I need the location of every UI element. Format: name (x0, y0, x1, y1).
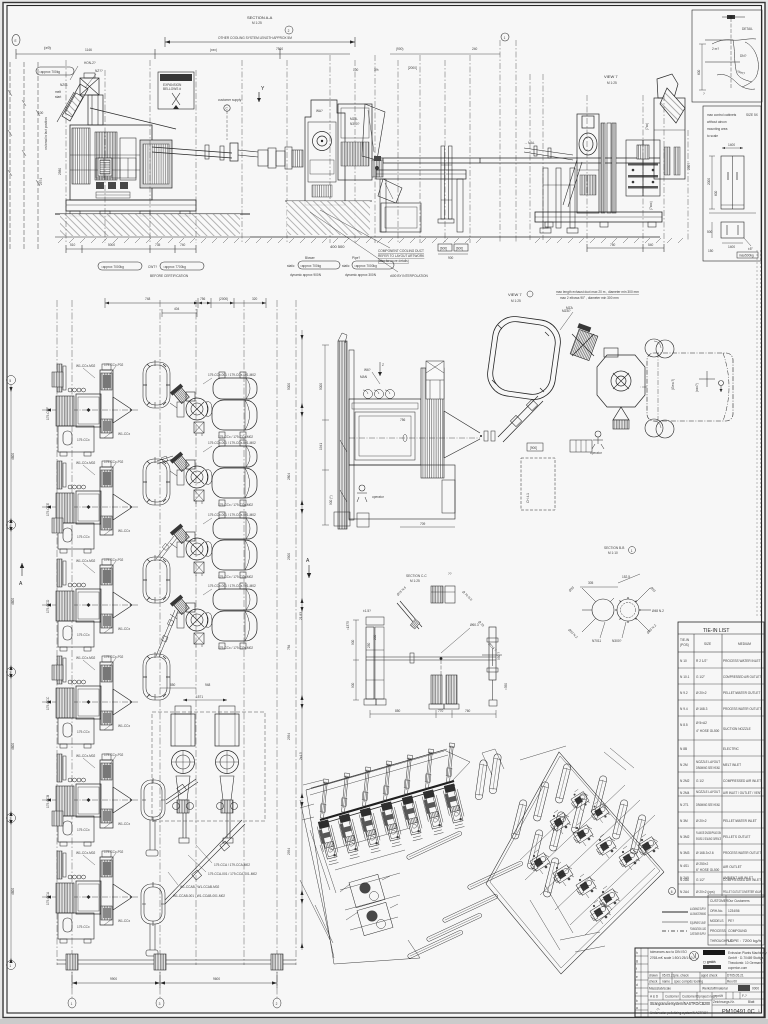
iso1 dryer blob 1 (340, 874, 390, 907)
big pipe loop center view (485, 314, 563, 403)
pelletizer assembly 1 (170, 372, 257, 439)
dryer area dashed enclosure (152, 712, 265, 821)
ground hatch ticks (58, 238, 683, 243)
iso2 cluster A1 (530, 850, 551, 874)
svg-text:1: 1 (504, 36, 506, 40)
svg-text:mounting area: mounting area (707, 127, 728, 131)
svg-text:2804: 2804 (287, 473, 291, 480)
svg-text:[2000]: [2000] (408, 66, 417, 70)
iso1 mast 3 (362, 767, 371, 806)
svg-text:756: 756 (400, 418, 406, 422)
svg-text:≈approx 700kg: ≈approx 700kg (39, 70, 60, 74)
svg-text:→ MAL: → MAL (524, 141, 535, 145)
exhaust duct note (556, 290, 639, 300)
svg-text:500: 500 (707, 230, 713, 234)
iso2 silo tube 5 (555, 763, 572, 804)
svg-text:N 8.5: N 8.5 (680, 723, 688, 727)
svg-text:SIZE 5X: SIZE 5X (746, 113, 759, 117)
svg-text:CH 4.1: CH 4.1 (526, 493, 530, 503)
C-C left frame (366, 617, 384, 699)
svg-text:179-CCA / 179-CCA-M02: 179-CCA / 179-CCA-M02 (214, 863, 250, 867)
diverter knot at duct start (372, 156, 383, 177)
diagonal pellet pipe row 5 (166, 779, 198, 804)
svg-text:Customer: Customer (665, 995, 680, 999)
diagonal pellet pipe row 6 (165, 820, 245, 904)
left wall columns (52, 372, 63, 826)
svg-text:770: 770 (438, 709, 444, 713)
right plan dim labels rotated (287, 383, 303, 855)
svg-text:DRAWING SEE HEAD: DRAWING SEE HEAD (696, 766, 721, 770)
svg-text:4" HOSE GL500: 4" HOSE GL500 (696, 729, 720, 733)
svg-text:CustomerID: CustomerID (682, 995, 700, 999)
iso2 bottom edge extras (530, 885, 605, 952)
svg-text:[600]: [600] (456, 247, 463, 251)
svg-text:N 3M3: N 3M3 (680, 851, 690, 855)
iso2 silo tube 8 (571, 793, 588, 834)
svg-text:G 1/2": G 1/2" (696, 675, 705, 679)
svg-text:179-CCA-001 / 179-CCA-001-M02: 179-CCA-001 / 179-CCA-001-M02 (208, 872, 257, 876)
svg-text:project no.: project no. (699, 995, 714, 999)
table outer frame (678, 622, 764, 897)
svg-text:N 2T1: N 2T1 (680, 803, 689, 807)
svg-text:SUCTION NOZZLE: SUCTION NOZZLE (723, 727, 751, 731)
svg-text:tolerances acc to DIN ISO: tolerances acc to DIN ISO (650, 950, 687, 954)
svg-text:Z: Z (382, 363, 384, 367)
bellows note box (158, 72, 194, 109)
svg-text:NZ??: NZ?? (95, 69, 103, 73)
svg-text:WA?: WA? (316, 109, 323, 113)
svg-text:740: 740 (180, 243, 186, 247)
svg-text:h: h (636, 951, 638, 955)
company bold rows (703, 950, 725, 969)
iso1 pellet tube 1 (406, 831, 462, 860)
svg-text:SECTION B-B: SECTION B-B (604, 546, 624, 550)
plan vertical grid lines (57, 300, 296, 1000)
svg-text:PELLET/WATER OUTLET: PELLET/WATER OUTLET (723, 691, 760, 695)
svg-text:EN1092-1 SEALING SURFACE: EN1092-1 SEALING SURFACE (696, 837, 721, 841)
svg-text:N 3M: N 3M (680, 819, 688, 823)
svg-text:to scale: to scale (707, 134, 718, 138)
feed column (88, 95, 103, 125)
tilted deflector plate (378, 179, 402, 203)
svg-text:(7xxx): (7xxx) (649, 201, 653, 210)
pelletizer assembly center (597, 348, 645, 429)
top dim labels center (353, 47, 500, 72)
iso1 machine 5 (400, 795, 424, 841)
operator figure center (590, 431, 604, 455)
svg-text:W1-CCAB-001 / W1-CCAB-001-M02: W1-CCAB-001 / W1-CCAB-001-M02 (173, 894, 225, 898)
svg-text:COMPRESSED AIR OUTLET: COMPRESSED AIR OUTLET (723, 675, 761, 679)
svg-text:5000: 5000 (287, 383, 291, 390)
svg-text:PROCESS WATER OUTLET: PROCESS WATER OUTLET (723, 707, 761, 711)
svg-text:HON-2?: HON-2? (84, 61, 96, 65)
Y datum arrow (257, 86, 265, 102)
svg-text:ELECTRIC: ELECTRIC (723, 747, 739, 751)
svg-text:▢ gmbh: ▢ gmbh (703, 960, 716, 964)
svg-text:N7011: N7011 (592, 639, 601, 643)
section A-A title (247, 15, 273, 25)
svg-text:pre. check: pre. check (674, 974, 689, 978)
svg-text:1400: 1400 (728, 143, 735, 147)
inlet pipe left (524, 141, 573, 160)
detail dims (699, 44, 706, 90)
iso2 aisle lines (520, 785, 658, 935)
svg-text:PROCESS: PROCESS (710, 929, 726, 933)
title block top row texts (650, 950, 693, 960)
svg-text:DETAIL: DETAIL (742, 27, 753, 31)
open frame box (381, 203, 421, 232)
svg-text:BEFORE CERTIFICATION: BEFORE CERTIFICATION (150, 274, 189, 278)
iso2 silo tube 7 (549, 811, 566, 852)
svg-text:404: 404 (174, 307, 180, 311)
date-name rows (648, 972, 764, 984)
svg-text:PELLET/WATER INLET: PELLET/WATER INLET (723, 819, 757, 823)
iso2 cluster B3 (596, 834, 617, 858)
section arrow A right (306, 558, 311, 578)
right tower with hopper (654, 74, 685, 179)
iso1 mast 1 (320, 779, 329, 818)
svg-text:PM10491.0C: PM10491.0C (722, 1009, 755, 1015)
svg-text:±5°: ±5° (748, 247, 754, 251)
svg-text:N 2A6: N 2A6 (680, 878, 689, 882)
iso2 cluster A3 (576, 874, 597, 898)
vertical grid dashed right view (530, 74, 688, 244)
table data rows (678, 668, 764, 884)
svg-text:??: ?? (448, 572, 452, 576)
svg-text:max 2 elbows 90° , diameter mi: max 2 elbows 90° , diameter min 300 mm (560, 296, 619, 300)
iso1 mast 2 (341, 773, 350, 812)
svg-text:6: 6 (671, 890, 673, 894)
svg-text:AIR OUTLET: AIR OUTLET (723, 865, 742, 869)
svg-text:f: f (636, 967, 637, 971)
iso2 cluster A2 (553, 862, 574, 886)
middle hatched columns (601, 123, 616, 213)
svg-text:3: 3 (159, 1002, 161, 1006)
feed hopper box (80, 73, 99, 95)
svg-text:GmbH · D-70469 Stuttgart: GmbH · D-70469 Stuttgart (728, 956, 765, 960)
svg-text:SECTION A-A: SECTION A-A (247, 15, 273, 20)
manifold piping detail (96, 158, 136, 198)
melt pipe to diverter (152, 143, 258, 161)
svg-text:0000: 0000 (752, 987, 759, 991)
pelletizer main block (305, 100, 372, 205)
iso2 cluster top (571, 789, 590, 811)
plan top dimension chain (105, 297, 266, 317)
blower weight pills (287, 256, 394, 277)
svg-text:ALLOWANCE SUPPLY: ALLOWANCE SUPPLY (690, 907, 706, 911)
svg-text:N 10: N 10 (680, 659, 687, 663)
svg-text:709: 709 (420, 522, 426, 526)
cabinet left extension (707, 156, 718, 209)
svg-text:900 (*): 900 (*) (329, 495, 333, 505)
drawing title text (650, 1001, 710, 1015)
twin cylinders center bottom (645, 419, 674, 438)
circled marker left of last row (669, 888, 676, 895)
svg-text:Ø60.3: Ø60.3 (470, 623, 479, 627)
extruder main body (70, 108, 176, 200)
leader MZA (560, 306, 574, 330)
svg-text:7560: 7560 (276, 47, 283, 51)
svg-text:2580: 2580 (58, 168, 62, 175)
dryer unit 2 (215, 706, 239, 843)
svg-text:200: 200 (373, 634, 377, 640)
center pelletizer assembly dark (626, 140, 660, 196)
svg-text:179-CCE: 179-CCE (46, 503, 50, 516)
loop-to-assembly connector row 2 (157, 456, 173, 464)
plan right dimension line (301, 330, 304, 950)
table header row (678, 634, 764, 896)
iso1 mast 7 (446, 743, 455, 782)
C-C leader to pipe (441, 623, 479, 653)
iso2 silo tube 1 (475, 759, 488, 800)
C-C left dims (346, 609, 377, 700)
svg-text:Werkstoff/material: Werkstoff/material (702, 987, 728, 991)
row 5 loop small (141, 778, 165, 822)
feed chute diagonal (57, 84, 88, 122)
svg-text:(also for more details): (also for more details) (378, 259, 409, 263)
svg-text:appd check: appd check (701, 974, 718, 978)
legend line samples (662, 907, 706, 916)
svg-text:1941: 1941 (319, 443, 323, 450)
svg-text:LDPE : 7200 kg/h: LDPE : 7200 kg/h (728, 939, 761, 943)
iso1 machine 2 (337, 813, 361, 859)
svg-text:e: e (636, 975, 638, 979)
dryer top dim (160, 683, 227, 701)
dryer unit 1 (171, 706, 195, 843)
svg-text:NOZZLE LAYOUT: NOZZLE LAYOUT (696, 790, 720, 794)
svg-text:M 1:25: M 1:25 (607, 81, 617, 85)
machine row 4 (42, 655, 138, 748)
iso1 mast 6 (425, 749, 434, 788)
svg-text:760: 760 (465, 709, 471, 713)
cabinet separator line (709, 212, 756, 214)
drawing number (722, 1009, 760, 1015)
svg-text:VIEW 7: VIEW 7 (604, 74, 618, 79)
machine row 6 (42, 850, 138, 943)
table row texts (680, 659, 762, 894)
svg-text:4600: 4600 (11, 598, 15, 605)
C-C rotated labels (396, 585, 498, 652)
svg-text:N 3M2: N 3M2 (680, 835, 690, 839)
svg-text:N 8B: N 8B (680, 747, 687, 751)
machine row 3 (42, 558, 138, 651)
svg-text:≈approx 7000kg: ≈approx 7000kg (101, 265, 124, 269)
svg-text:drawn: drawn (649, 974, 658, 978)
svg-text:2900: 2900 (287, 553, 291, 560)
machine base plate (66, 200, 196, 216)
left tall column with ellipse (577, 114, 599, 213)
detail texts (697, 27, 753, 96)
dashed box CH41 (521, 458, 555, 510)
B-B circled 1 (629, 547, 636, 554)
C-C right riser (482, 627, 508, 706)
right margin dashed grid lines (757, 250, 761, 618)
iso2 machinery cluster row A (530, 850, 620, 924)
svg-text:EQUIPMENT LINE?: EQUIPMENT LINE? (690, 921, 706, 925)
svg-text:1234/56: 1234/56 (728, 909, 740, 913)
svg-text:2954: 2954 (287, 848, 291, 855)
logo circle (690, 952, 699, 961)
iso2 silo tube 10 (543, 857, 560, 898)
svg-text:2768-mK scale 1:50/1:25/1:10: 2768-mK scale 1:50/1:25/1:10 (650, 956, 693, 960)
pellet loop row 2 (143, 457, 170, 505)
duct support columns (438, 146, 454, 223)
svg-text:948: 948 (205, 683, 211, 687)
svg-text:R 2 1/2": R 2 1/2" (696, 659, 707, 663)
svg-text:735: 735 (155, 243, 161, 247)
iso2 slab diamond (486, 752, 664, 974)
svg-text:without aircon: without aircon (707, 120, 727, 124)
svg-text:240: 240 (472, 47, 478, 51)
row 5 drop pipe (146, 820, 158, 856)
svg-text:REFER TO LAYOUT ARTWORK: REFER TO LAYOUT ARTWORK (378, 254, 425, 258)
ground line left (55, 214, 250, 237)
svg-text:2 m?: 2 m? (712, 47, 719, 51)
ground hatch center (250, 201, 660, 237)
svg-text:ALLOWANCE DRAWING: ALLOWANCE DRAWING (690, 912, 706, 916)
svg-text:5: 5 (9, 379, 11, 383)
svg-text:AIR INLET / OUTLET / VENT: AIR INLET / OUTLET / VENT (723, 791, 762, 795)
svg-text:FLANGE DN200/PN10 DIN: FLANGE DN200/PN10 DIN (696, 831, 721, 835)
bottom cluster leader labels (173, 863, 257, 898)
iso2 cluster top2 (591, 801, 610, 823)
small cells right of mid (712, 992, 764, 999)
section C-C title (406, 572, 452, 583)
table title (678, 628, 764, 634)
svg-text:Ø 250×2: Ø 250×2 (696, 862, 709, 866)
svg-text:≈1375: ≈1375 (346, 621, 350, 630)
svg-text:max500kg: max500kg (739, 254, 754, 258)
extruder body plan (349, 361, 480, 527)
center view bottom small dims (400, 522, 455, 527)
svg-text:(7xx): (7xx) (645, 123, 649, 130)
svg-text:N 2M4: N 2M4 (680, 791, 690, 795)
svg-text:ORH-No.: ORH-No. (710, 909, 723, 913)
iso2 machinery cluster row B (550, 810, 659, 870)
svg-text:540: 540 (648, 243, 654, 247)
svg-text:Ø 20×2: Ø 20×2 (696, 819, 707, 823)
iso1 machine 4 (379, 801, 403, 847)
svg-text:1571: 1571 (196, 695, 203, 699)
svg-text:check: check (649, 980, 658, 984)
svg-text:900: 900 (448, 256, 454, 260)
svg-text:OTHER COOLING SYSTEM LENGTH AP: OTHER COOLING SYSTEM LENGTH APPROX 5M (218, 36, 292, 40)
svg-text:G 1/2: G 1/2 (696, 779, 704, 783)
svg-text:(x9): (x9) (44, 45, 52, 50)
svg-text:1: 1 (71, 1002, 73, 1006)
pelletizer assembly 4 (170, 583, 257, 650)
svg-text:COMPRESSED AIR INLET: COMPRESSED AIR INLET (723, 878, 761, 882)
svg-text:PROCESS WATER OUTLET: PROCESS WATER OUTLET (723, 851, 761, 855)
view title center (508, 291, 533, 303)
iso1 roofline beams (300, 751, 448, 820)
gray gear block (140, 140, 172, 188)
svg-text:1146: 1146 (85, 48, 92, 52)
svg-text:(900): (900) (396, 47, 403, 51)
svg-text:748: 748 (145, 297, 151, 301)
svg-text:DT05.05.21: DT05.05.21 (727, 974, 744, 978)
middle band (648, 984, 764, 992)
svg-text:Rev.00: Rev.00 (727, 980, 737, 984)
svg-text:250?: 250? (687, 163, 691, 170)
svg-text:melt: melt (55, 90, 61, 94)
iso1 machine 7 (442, 783, 466, 829)
svg-text:N 9.2: N 9.2 (680, 691, 688, 695)
left hatched column structure (334, 333, 354, 529)
svg-text:static: static (342, 264, 350, 268)
dim boxes 600 600 (438, 244, 468, 260)
bottom grid circles (68, 998, 281, 1008)
svg-text:M 1:25: M 1:25 (410, 579, 420, 583)
center view left dims (319, 345, 333, 525)
svg-text:6" HOSE GL500: 6" HOSE GL500 (696, 868, 720, 872)
customer duct label (0, 0, 1, 1)
svg-text:(Gew.?): (Gew.?) (671, 379, 675, 390)
svg-text:150: 150 (708, 249, 714, 253)
svg-text:COMPOUND: COMPOUND (728, 929, 748, 933)
svg-text:W6?: W6? (364, 368, 371, 372)
svg-text:305: 305 (588, 581, 594, 585)
svg-text:4600: 4600 (11, 743, 15, 750)
small grid rack (570, 440, 592, 452)
svg-text:(xxx): (xxx) (210, 48, 217, 52)
svg-text:2: 2 (288, 29, 290, 33)
big water tank cylinder (640, 353, 733, 421)
svg-text:≈approx 700kg: ≈approx 700kg (300, 264, 321, 268)
svg-text:a: a (636, 1006, 638, 1010)
left rotated machine labels (46, 407, 50, 905)
iso2 silo tube 3 (511, 799, 528, 840)
iso1 machine 3 (358, 807, 382, 853)
svg-text:name: name (662, 980, 670, 984)
svg-text:9900: 9900 (110, 977, 117, 981)
twin cylinders center top (645, 339, 674, 358)
svg-text:PE?: PE? (728, 919, 734, 923)
svg-text:[900]: [900] (530, 446, 537, 450)
svg-text:≈approx 7700kg: ≈approx 7700kg (163, 265, 186, 269)
view 7 title (604, 74, 618, 85)
top long dimension arrow (165, 26, 355, 51)
svg-text:b: b (636, 999, 638, 1003)
svg-text:geprüft: geprüft (713, 994, 723, 998)
iso1 misc short lines (300, 830, 336, 943)
plan bottom wall band (57, 954, 296, 970)
svg-text:•600 BY INTERPOLATION: •600 BY INTERPOLATION (390, 274, 429, 278)
iso1 pellet tube 2 (442, 894, 498, 923)
svg-text:PELLETS OUTLET: PELLETS OUTLET (723, 835, 751, 839)
iso2 cluster B5 (638, 834, 659, 858)
svg-text:CUSTOMER SUPPLY: CUSTOMER SUPPLY (690, 932, 706, 936)
cabinet dim top (722, 143, 743, 149)
iso2 silo tube 9 (591, 775, 608, 816)
svg-text:G 1/2": G 1/2" (696, 878, 705, 882)
B-B top dims (580, 574, 640, 587)
svg-text:Ø 20×2: Ø 20×2 (696, 691, 707, 695)
svg-text:on head in fact position: on head in fact position (44, 117, 48, 150)
svg-text:5000: 5000 (319, 383, 323, 390)
svg-text:600: 600 (714, 190, 718, 196)
revision column (635, 948, 648, 1017)
grid circle E left (12, 35, 20, 46)
svg-text:TIE-IN: TIE-IN (680, 638, 690, 642)
C-C bottom columns (429, 675, 459, 709)
svg-text:756: 756 (200, 297, 206, 301)
iso2 cluster B1 (550, 810, 571, 834)
pelletizer assembly 2 (170, 440, 257, 507)
diagonal riser pipe (498, 396, 543, 442)
svg-text:1: 1 (9, 964, 11, 968)
svg-text:100: 100 (353, 68, 359, 72)
